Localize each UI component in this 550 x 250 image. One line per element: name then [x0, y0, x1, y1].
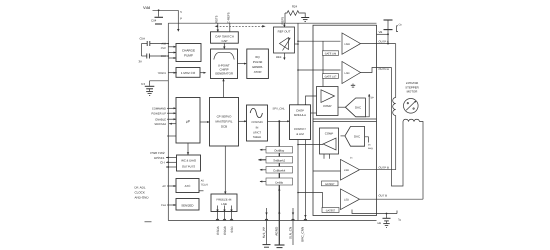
- cos sin lookup table U9: [247, 105, 268, 141]
- svg-text:REF: REF: [276, 55, 282, 59]
- svg-text:CLA: CLA: [161, 204, 166, 207]
- svg-text:CuBlank4: CuBlank4: [273, 169, 286, 173]
- svg-text:C04: C04: [151, 19, 157, 23]
- svg-text:7g: 7g: [398, 219, 401, 222]
- wire input pins: [167, 107, 176, 136]
- wire Vdd rail: [153, 9, 179, 11]
- node TOSC pin: [157, 72, 176, 75]
- svg-text:HSD: HSD: [345, 43, 351, 46]
- svg-text:GATE LIM: GATE LIM: [325, 53, 336, 56]
- signal row SnBlank2: [258, 157, 293, 164]
- svg-text:REF5: REF5: [281, 17, 285, 25]
- op-amp LSD: [342, 62, 361, 84]
- freeze line box U11: [211, 194, 237, 212]
- svg-text:LSD: LSD: [345, 72, 350, 75]
- svg-text:GENER-: GENER-: [252, 65, 263, 69]
- node RST pin: [214, 15, 219, 32]
- digital filter U8: [210, 98, 239, 147]
- inductor winding B: [392, 68, 424, 200]
- capacitor 3.3n bypass: [141, 81, 168, 91]
- svg-text:DAC: DAC: [355, 106, 361, 110]
- wire to chop top: [305, 96, 317, 106]
- cap switch box U3: [211, 32, 239, 43]
- svg-text:SP: SP: [371, 97, 375, 100]
- svg-text:ATOR: ATOR: [254, 70, 262, 74]
- irq diag box U12: [177, 155, 201, 171]
- wire to hs driver: [298, 40, 341, 42]
- svg-text:UP/CT: UP/CT: [253, 132, 261, 135]
- node SLN_CN pin: [288, 208, 294, 245]
- wire bottom rail: [168, 220, 376, 222]
- comparator COMP2: [320, 128, 339, 154]
- svg-text:LSD: LSD: [344, 169, 349, 172]
- wire filter to freeze: [224, 146, 226, 194]
- svg-text:C5C: C5C: [161, 47, 166, 50]
- microprocessor U7: [176, 98, 200, 144]
- svg-text:LNB: LNB: [221, 202, 227, 206]
- svg-text:Iavg: Iavg: [368, 147, 373, 150]
- svg-text:A32: A32: [161, 43, 166, 46]
- wire to ls driver: [298, 69, 341, 71]
- svg-text:DIS5E1: DIS5E1: [154, 156, 165, 160]
- svg-text:ENABLE: ENABLE: [155, 118, 166, 121]
- svg-text:MASTER FIL: MASTER FIL: [215, 120, 232, 124]
- svg-text:REF OUT: REF OUT: [278, 30, 291, 34]
- svg-text:TABLE: TABLE: [253, 136, 262, 139]
- svg-text:MODULA: MODULA: [294, 113, 306, 117]
- dac DAC2: [341, 127, 374, 150]
- wire comp2 out: [298, 144, 323, 146]
- comparator COMP1: [317, 87, 339, 116]
- svg-text:IN: IN: [256, 127, 259, 130]
- wire dashed bus arrow: [215, 25, 266, 27]
- svg-text:ATC: ATC: [185, 184, 192, 188]
- wire top rail: [168, 22, 376, 24]
- svg-text:Cb: Cb: [399, 24, 403, 27]
- svg-text:3V: 3V: [139, 60, 143, 64]
- inductor winding A: [393, 44, 396, 170]
- node Vdd: [143, 5, 150, 10]
- wire agnd vertical bold: [278, 121, 280, 245]
- node external text block: [135, 186, 150, 200]
- node diag pins: [150, 151, 176, 168]
- svg-text:μP: μP: [186, 120, 191, 124]
- wire hops on rail: [216, 219, 219, 220]
- svg-text:SSC: SSC: [230, 226, 234, 233]
- wire freeze pins down: [216, 206, 232, 221]
- svg-text:A5: A5: [201, 180, 205, 183]
- svg-text:OUTPUTS: OUTPUTS: [182, 164, 195, 168]
- svg-text:DeBla: DeBla: [275, 180, 283, 184]
- motor M1: [404, 99, 419, 114]
- divider double line: [313, 118, 377, 120]
- node AGND pin: [275, 226, 285, 248]
- svg-text:PWR FW2: PWR FW2: [150, 151, 164, 155]
- wire charge pump pins: [168, 43, 177, 59]
- signal row OutBlank: [260, 147, 293, 154]
- svg-text:CHOP: CHOP: [296, 109, 304, 113]
- svg-text:COMP: COMP: [325, 132, 334, 136]
- svg-text:OUTN A: OUTN A: [379, 67, 390, 71]
- svg-text:CC0/CC7: CC0/CC7: [294, 127, 306, 131]
- 8-point generator U4: [211, 49, 238, 79]
- gate limit label 2: [323, 74, 339, 79]
- svg-text:AC: AC: [162, 185, 166, 188]
- svg-text:PULSE: PULSE: [253, 60, 263, 64]
- svg-text:GATE57: GATE57: [325, 183, 335, 186]
- svg-text:CP SERVO: CP SERVO: [217, 115, 233, 119]
- svg-text:VB: VB: [379, 30, 383, 34]
- charge pump U1: [176, 44, 201, 62]
- svg-text:R24: R24: [292, 5, 298, 9]
- svg-text:AGND: AGND: [275, 226, 279, 236]
- svg-text:SDO/SA3: SDO/SA3: [154, 123, 166, 126]
- driver block outline: [313, 25, 377, 215]
- op-amp LSD4: [341, 189, 360, 210]
- sense box U14: [176, 199, 199, 211]
- wire outn: [361, 68, 392, 73]
- op-amp LSD3: [341, 160, 360, 181]
- svg-text:LSD: LSD: [344, 199, 349, 202]
- svg-text:CHARGE: CHARGE: [182, 49, 195, 53]
- node input pins: [151, 107, 166, 125]
- wire 8point to eq: [238, 63, 247, 65]
- wire filter to 8point: [222, 79, 224, 98]
- svg-text:TOSC2: TOSC2: [157, 72, 166, 75]
- svg-text:& LIM: & LIM: [296, 132, 304, 136]
- svg-text:AND-GND: AND-GND: [135, 196, 150, 200]
- svg-text:μ: μ: [180, 16, 182, 20]
- svg-text:POWER UP: POWER UP: [151, 112, 166, 115]
- svg-text:Vdd: Vdd: [143, 5, 150, 10]
- wire outpb: [360, 169, 396, 171]
- node BRC_CNN pin: [301, 227, 305, 242]
- wire ref bus vertical: [297, 23, 299, 220]
- svg-text:GATE57: GATE57: [326, 210, 336, 213]
- wire chop out: [311, 112, 317, 114]
- svg-text:DAC: DAC: [354, 134, 360, 138]
- node C-REF pin: [226, 12, 230, 31]
- ref out buffer U6: [274, 23, 295, 60]
- atc box U13: [176, 179, 208, 193]
- svg-text:OUTP A: OUTP A: [379, 39, 389, 43]
- wire refout to bus: [295, 43, 299, 45]
- node CP pin labels: [161, 43, 167, 59]
- node CLA pin: [161, 204, 176, 207]
- svg-text:DF. ADL: DF. ADL: [135, 186, 146, 190]
- svg-text:SnBlank2: SnBlank2: [273, 159, 285, 163]
- svg-text:im: im: [350, 157, 352, 160]
- node motor label: [405, 81, 419, 94]
- dac DAC1: [338, 94, 374, 117]
- wire filter to lut: [239, 120, 248, 122]
- wire hb node: [352, 210, 401, 228]
- svg-text:IRC & DIAG: IRC & DIAG: [181, 159, 196, 163]
- svg-text:TEL/4: TEL/4: [201, 184, 208, 187]
- wire left bus: [167, 23, 169, 220]
- svg-text:RST5: RST5: [214, 15, 218, 23]
- gate label 4: [322, 208, 339, 213]
- node AC pin: [162, 185, 176, 188]
- svg-text:BRC_CNN: BRC_CNN: [301, 227, 305, 242]
- wire switch to 8point: [223, 43, 225, 49]
- gate label 3: [322, 181, 339, 186]
- svg-text:OUT B: OUT B: [379, 194, 388, 198]
- svg-text:CAP: CAP: [222, 39, 228, 43]
- svg-text:1 MHZ CO: 1 MHZ CO: [181, 71, 196, 75]
- svg-text:C0C: C0C: [161, 55, 166, 58]
- gate limit label 1: [323, 51, 339, 56]
- svg-text:ESDA: ESDA: [216, 225, 220, 234]
- inductor L 5uH: [177, 10, 182, 32]
- svg-text:SPV_CHL: SPV_CHL: [273, 108, 286, 111]
- svg-text:5: 5: [180, 10, 182, 14]
- svg-text:PUMP: PUMP: [184, 54, 193, 58]
- ground: [146, 92, 153, 96]
- node REF pin: [281, 13, 286, 25]
- node VB cap: [377, 20, 403, 44]
- signal row CuBlank4: [260, 167, 293, 174]
- svg-text:C-REF5: C-REF5: [226, 12, 230, 23]
- wire uP to irq box: [187, 143, 189, 155]
- resistor R24: [285, 5, 303, 16]
- capacitor C04: [151, 10, 163, 24]
- svg-text:ESGB: ESGB: [223, 226, 227, 235]
- svg-text:CLOCK: CLOCK: [135, 191, 145, 195]
- node 5V3_PP pin: [262, 208, 271, 247]
- svg-text:OUTP B: OUTP B: [379, 165, 389, 169]
- wire chop bottom pin: [304, 140, 306, 221]
- wire up arrow into stack: [278, 188, 280, 191]
- svg-text:DCB: DCB: [221, 125, 227, 129]
- svg-text:CHIRP: CHIRP: [220, 67, 229, 71]
- signal row DeBlank: [260, 178, 293, 185]
- svg-text:HB: HB: [378, 222, 382, 225]
- svg-text:CH: CH: [160, 161, 164, 165]
- wire comp2 stubs: [323, 154, 325, 159]
- svg-text:MOTOR: MOTOR: [407, 90, 418, 94]
- svg-text:COS/SIN: COS/SIN: [251, 121, 262, 124]
- svg-text:3.3: 3.3: [141, 82, 145, 86]
- ground: [301, 13, 309, 22]
- svg-text:OutBlay: OutBlay: [274, 149, 285, 153]
- svg-text:GENERATOR: GENERATOR: [215, 72, 233, 76]
- capacitor cluster C5A at charge pump: [139, 37, 169, 64]
- wire outnb long: [360, 198, 424, 200]
- wire ref to drv4: [298, 193, 323, 208]
- wire uP to filter: [200, 121, 210, 123]
- junction dot: [158, 9, 160, 11]
- svg-text:COMP: COMP: [323, 104, 332, 108]
- ground tick: [145, 221, 152, 223]
- ground: [351, 84, 355, 88]
- svg-text:EQ: EQ: [256, 55, 261, 59]
- svg-text:SLN_CN: SLN_CN: [288, 227, 292, 239]
- svg-text:COMMAND: COMMAND: [152, 107, 166, 110]
- oscillator U2: [175, 68, 200, 78]
- wire outa: [361, 43, 396, 45]
- svg-text:GATE LS7: GATE LS7: [325, 75, 337, 78]
- wire lut to chop: [268, 120, 291, 122]
- svg-text:C5A: C5A: [140, 37, 146, 41]
- svg-text:5V3_PP: 5V3_PP: [262, 227, 266, 238]
- chop module U10: [290, 105, 311, 140]
- wire to drv3: [313, 170, 341, 172]
- svg-text:5EN/2ED: 5EN/2ED: [181, 203, 193, 207]
- wire osc out: [200, 72, 206, 74]
- op-amp HSD: [342, 33, 361, 54]
- wire to comp1: [322, 41, 324, 86]
- eq pulse generator U5: [247, 49, 269, 79]
